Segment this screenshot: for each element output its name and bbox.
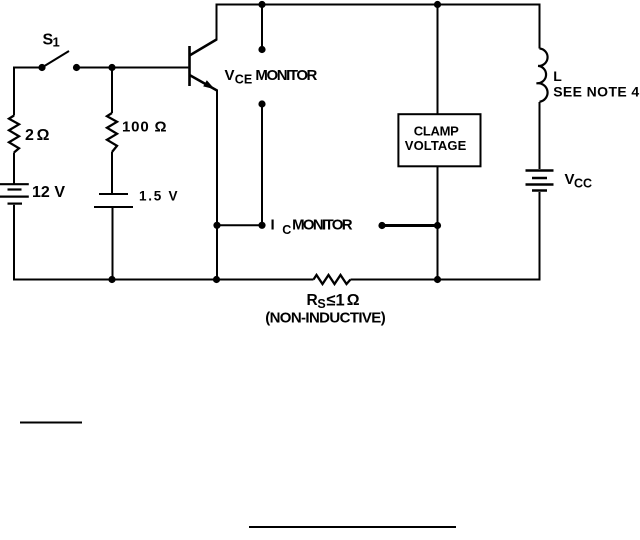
wire top rail [216,4,540,6]
wire 1.5V to bottom rail [112,208,114,281]
svg-text:MONITOR: MONITOR [255,67,317,84]
transistor Q1 emitter [190,75,218,91]
wire 100ohm to 1.5V battery [111,152,113,193]
wire inductor to VCC battery [539,102,541,169]
wire VCC to bottom rail [539,192,541,281]
underline segment bottom center [249,526,456,528]
svg-text:SEE NOTE 4: SEE NOTE 4 [553,83,639,99]
wire 2ohm to 12V battery [13,153,15,184]
wire switch to base junction [77,67,189,69]
node bottom rail left [108,276,115,283]
svg-text:Ω: Ω [347,292,360,309]
svg-text:1: 1 [53,35,60,50]
resistor 100 ohm [107,113,117,152]
svg-text:100 Ω: 100 Ω [122,119,167,136]
svg-text:(NON-INDUCTIVE): (NON-INDUCTIVE) [265,310,386,327]
svg-text:L: L [553,68,562,84]
wire right drop to inductor [539,4,541,49]
wire left vertical upper [13,67,15,116]
wire 1.5V branch upper [111,67,113,114]
svg-text:V: V [565,171,575,188]
svg-text:2Ω: 2Ω [25,127,50,144]
svg-text:CLAMP: CLAMP [414,123,459,138]
wire VCE probe stub [261,4,263,50]
wire left branch top [13,67,42,69]
transistor Q1 base bar [188,46,191,86]
battery 1.5V [94,194,133,207]
node top rail left [258,1,265,8]
svg-text:C: C [282,223,291,237]
svg-text:CE: CE [235,73,252,87]
clamp voltage box [398,114,480,166]
wire bottom rail [14,279,540,281]
svg-text:V: V [225,67,235,84]
svg-text:MONITOR: MONITOR [292,217,353,234]
resistor 2 ohm [9,116,19,153]
svg-text:I: I [271,217,275,234]
node clamp mid junction [434,222,441,229]
svg-text:VOLTAGE: VOLTAGE [405,138,467,153]
node VCE probe top [258,46,265,53]
node IC probe left [258,222,265,229]
wire IC monitor horizontal [217,224,262,226]
switch S1 blade [42,51,69,68]
node bottom rail emitter [213,276,220,283]
wire 12V to bottom rail [13,205,15,281]
svg-text:CC: CC [574,177,592,191]
wire clamp vertical upper [437,4,439,115]
wire clamp vertical lower [437,166,439,280]
underline segment left [20,422,82,424]
inductor L [537,49,548,102]
node switch throw [73,64,80,71]
svg-text:≤1: ≤1 [326,292,344,310]
svg-text:R: R [307,292,318,309]
svg-text:1.5 V: 1.5 V [139,188,178,203]
svg-text:12 V: 12 V [32,184,65,201]
wire IC probe thick segment [382,224,438,227]
node emitter IC junction [213,222,220,229]
node bottom rail clamp [434,276,441,283]
node top rail right [434,1,441,8]
transistor Q1 emitter arrow [203,80,215,89]
node VCE probe bottom [258,100,265,107]
node IC probe right [378,222,385,229]
transistor Q1 collector [190,40,217,56]
battery 12V [0,184,29,203]
resistor RS zigzag [314,275,351,284]
node switch pole [38,64,45,71]
battery VCC [526,171,554,191]
node base junction [108,64,115,71]
wire VCE lower probe line [261,104,263,225]
